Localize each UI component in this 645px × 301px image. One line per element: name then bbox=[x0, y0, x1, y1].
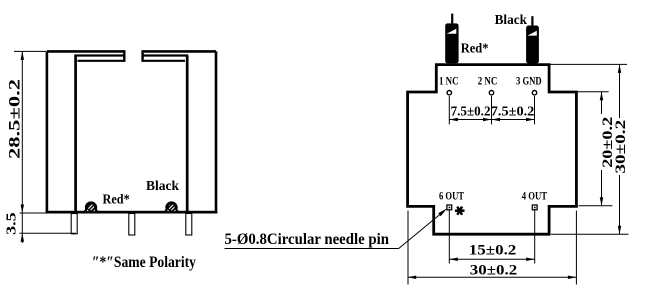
ext line from body right down bbox=[575, 211, 577, 285]
left view: outer case outline with top slot bbox=[46, 51, 218, 212]
dim 3.5 extension line upper bbox=[20, 212, 76, 214]
svg-text:1 NC: 1 NC bbox=[439, 74, 459, 88]
ext line from pad 4 down bbox=[534, 211, 536, 264]
left view: bobbin left wall bbox=[74, 56, 77, 213]
arrows of 7.5 dims bbox=[449, 118, 458, 122]
ext line right of bottom edge bbox=[551, 233, 629, 235]
red pin wire stub bbox=[451, 14, 453, 24]
dim line 7.5 spans bbox=[449, 119, 534, 121]
svg-text:Red*: Red* bbox=[461, 42, 489, 57]
svg-text:Black: Black bbox=[146, 179, 179, 194]
left view: bobbin flange right (double line + slot wall) bbox=[143, 50, 189, 62]
right view: pad 4 (square) bbox=[532, 205, 537, 210]
arrow up at 233.3 (from below) bbox=[21, 233, 25, 242]
right view: case outline (cross shape) bbox=[408, 65, 577, 235]
svg-text:5-Ø0.8Circular needle pin: 5-Ø0.8Circular needle pin bbox=[225, 231, 390, 248]
svg-text:30±0.2: 30±0.2 bbox=[470, 262, 517, 278]
ext line right of top edge bbox=[551, 63, 628, 65]
dim 28.5/3.5 vertical dimension line bbox=[21, 51, 23, 243]
left view: bobbin right wall bbox=[186, 56, 189, 213]
svg-text:3 GND: 3 GND bbox=[516, 74, 542, 88]
left view: bobbin flange left (double line + slot wall) bbox=[74, 50, 124, 62]
right view: pad 2 (circle) bbox=[489, 91, 493, 95]
right view: pad 6 (square) bbox=[447, 205, 452, 210]
right view: black lead pin (top right, solid) bbox=[526, 26, 539, 64]
ext line from body left down bbox=[407, 211, 409, 285]
ext line from pad 6 down bbox=[448, 211, 450, 264]
dim line 30±0.2 (right) stubs bbox=[619, 64, 621, 234]
left view: black wire grommet bump (hatched) bbox=[163, 203, 179, 213]
arrows 30±0.2 bottom bbox=[408, 276, 417, 280]
svg-text:3.5: 3.5 bbox=[5, 212, 20, 235]
left view: pin 3 bbox=[186, 214, 192, 236]
svg-text:15±0.2: 15±0.2 bbox=[469, 243, 517, 259]
arrow up at top of 28.5 bbox=[21, 51, 25, 60]
dim 3.5 extension line lower bbox=[20, 232, 77, 234]
leader underline bbox=[225, 248, 399, 250]
dim line 15±0.2 bbox=[449, 258, 534, 260]
ext lines from top pads bbox=[449, 96, 534, 124]
arrows 20±0.2 bbox=[600, 92, 604, 101]
left view: pin 1 bbox=[71, 214, 77, 234]
svg-text:28.5±0.2: 28.5±0.2 bbox=[7, 79, 24, 159]
dim line 30±0.2 bottom bbox=[408, 276, 577, 278]
right view: pad 1 (circle) bbox=[447, 91, 451, 95]
black pin wire stub bbox=[531, 16, 533, 25]
leader diagonal line to pin 6 bbox=[399, 213, 442, 249]
right view: polarity asterisk bbox=[455, 207, 465, 215]
svg-text:30±0.2: 30±0.2 bbox=[613, 120, 629, 174]
red pin crimp highlight bbox=[447, 29, 457, 34]
right view: pad 3 (circle) bbox=[532, 91, 536, 95]
left view: red wire grommet bump (hatched) bbox=[83, 203, 99, 213]
svg-text:Red*: Red* bbox=[103, 193, 130, 208]
svg-text:″*″Same Polarity: ″*″Same Polarity bbox=[92, 254, 196, 271]
leader arrowhead at pad 6 bbox=[438, 208, 447, 216]
dim 28.5 extension line top bbox=[14, 50, 46, 52]
left view: bottom edge bbox=[46, 211, 218, 214]
svg-text:2 NC: 2 NC bbox=[478, 74, 498, 88]
svg-text:7.5±0.2: 7.5±0.2 bbox=[451, 104, 491, 119]
arrows 15±0.2 bbox=[449, 258, 458, 262]
ext line right of upper step bbox=[578, 91, 609, 93]
arrow down at 213 bbox=[21, 205, 25, 214]
ext line right of lower step bbox=[579, 205, 613, 207]
svg-text:Black: Black bbox=[495, 13, 528, 28]
black pin crimp highlight bbox=[527, 31, 536, 36]
svg-text:6 OUT: 6 OUT bbox=[439, 189, 464, 203]
right view: red lead pin (top left, solid) bbox=[445, 23, 458, 63]
left view: pin 2 bbox=[129, 214, 135, 236]
svg-text:4 OUT: 4 OUT bbox=[522, 189, 547, 203]
svg-text:7.5±0.2: 7.5±0.2 bbox=[491, 104, 535, 119]
dim line 20±0.2 stubs bbox=[601, 92, 603, 206]
arrows 30±0.2 right bbox=[618, 64, 622, 73]
